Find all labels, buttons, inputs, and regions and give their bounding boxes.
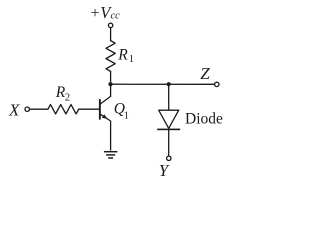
svg-text:1: 1 [124, 110, 129, 121]
svg-text:2: 2 [65, 93, 70, 104]
svg-text:cc: cc [111, 11, 121, 22]
svg-text:Y: Y [159, 161, 170, 180]
svg-text:X: X [8, 101, 20, 120]
svg-text:1: 1 [129, 54, 134, 65]
svg-text:Z: Z [200, 64, 210, 83]
svg-text:+: + [91, 5, 100, 22]
svg-text:Diode: Diode [185, 111, 223, 128]
svg-text:R: R [117, 47, 128, 64]
